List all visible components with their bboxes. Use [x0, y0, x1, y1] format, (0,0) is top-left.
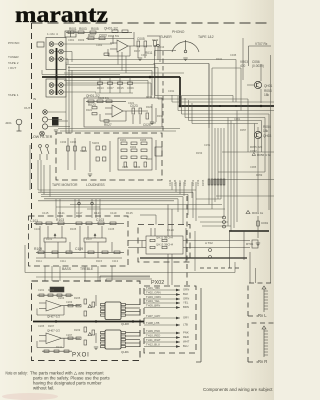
- svg-text:Rv R: Rv R: [258, 359, 267, 364]
- svg-text:C045: C045: [230, 53, 237, 57]
- svg-text:RT01: RT01: [246, 242, 254, 246]
- svg-text:R103: R103: [56, 218, 64, 222]
- svg-text:C115: C115: [42, 211, 49, 215]
- svg-text:C149: C149: [183, 179, 187, 186]
- svg-text:C201: C201: [38, 288, 45, 292]
- svg-text:QH0b: QH0b: [121, 350, 129, 354]
- svg-text:OUT: OUT: [24, 106, 31, 110]
- svg-text:QH01-1/2: QH01-1/2: [104, 27, 118, 31]
- svg-text:C101: C101: [34, 227, 41, 231]
- svg-text:C011: C011: [141, 53, 148, 57]
- svg-text:TH11_WHT: TH11_WHT: [146, 338, 161, 342]
- svg-text:GRY: GRY: [183, 316, 189, 320]
- svg-text:470: 470: [240, 64, 246, 68]
- svg-text:/ OUT: / OUT: [8, 66, 16, 70]
- svg-text:BRN: BRN: [183, 305, 189, 309]
- svg-text:LOW FILTER: LOW FILTER: [31, 135, 53, 139]
- svg-text:C013: C013: [158, 45, 165, 49]
- svg-text:R153: R153: [196, 151, 203, 155]
- svg-text:TH08_LTB: TH08_LTB: [146, 321, 159, 325]
- svg-text:C033: C033: [60, 140, 67, 144]
- svg-text:R061: R061: [120, 138, 127, 142]
- svg-text:C101: C101: [30, 219, 38, 223]
- svg-text:R209: R209: [74, 328, 81, 332]
- svg-text:C065: C065: [250, 165, 257, 169]
- svg-text:TUNER: TUNER: [160, 35, 172, 39]
- svg-text:QH01: QH01: [264, 84, 273, 88]
- svg-text:C043: C043: [134, 165, 141, 169]
- svg-text:C203: C203: [66, 300, 73, 304]
- svg-text:C105: C105: [108, 227, 115, 231]
- svg-text:C057: C057: [250, 149, 257, 153]
- svg-text:Components and wiring are subj: Components and wiring are subject: [203, 387, 273, 392]
- svg-text:J201: J201: [5, 121, 12, 125]
- svg-text:C151: C151: [204, 143, 211, 147]
- svg-text:marantz: marantz: [15, 2, 108, 27]
- svg-text:R021: R021: [86, 108, 93, 112]
- svg-text:R063: R063: [130, 145, 137, 149]
- svg-text:R017: R017: [134, 49, 141, 53]
- svg-text:PHONO: PHONO: [172, 30, 185, 34]
- svg-text:R091 1k: R091 1k: [252, 211, 264, 215]
- svg-text:C021: C021: [128, 101, 135, 105]
- svg-text:R015: R015: [117, 86, 124, 90]
- svg-text:R109: R109: [34, 247, 42, 251]
- svg-text:R041: R041: [216, 57, 223, 61]
- svg-text:R147: R147: [178, 179, 182, 186]
- svg-text:R059: R059: [256, 173, 263, 177]
- svg-text:TH05_BRN: TH05_BRN: [146, 304, 160, 308]
- svg-text:R057: R057: [240, 128, 247, 132]
- svg-text:R123: R123: [94, 211, 101, 215]
- svg-text:QH08: QH08: [121, 322, 129, 326]
- svg-text:C061: C061: [234, 117, 241, 121]
- svg-text:C003: C003: [99, 34, 107, 38]
- svg-text:R151: R151: [191, 179, 195, 186]
- svg-text:C005: C005: [137, 37, 145, 41]
- svg-text:PHONO: PHONO: [8, 41, 20, 45]
- svg-text:TUNER: TUNER: [8, 55, 19, 59]
- svg-text:(0.0039): (0.0039): [252, 64, 264, 68]
- svg-text:TH12_BLU: TH12_BLU: [146, 343, 160, 347]
- svg-text:Note on safety:: Note on safety:: [6, 371, 28, 376]
- svg-text:TH10_RED: TH10_RED: [146, 334, 160, 338]
- svg-text:IN: IN: [33, 97, 36, 101]
- svg-text:R013: R013: [97, 86, 104, 90]
- svg-text:C031: C031: [168, 89, 175, 93]
- svg-text:R056 4.7k: R056 4.7k: [257, 153, 271, 157]
- svg-text:YEL: YEL: [183, 301, 189, 305]
- svg-text:18k: 18k: [263, 129, 269, 133]
- svg-text:QH11 3BCH4: QH11 3BCH4: [156, 236, 173, 240]
- svg-text:R019: R019: [152, 38, 159, 42]
- svg-text:C153: C153: [196, 179, 200, 186]
- svg-text:TH07_GRY: TH07_GRY: [146, 314, 161, 318]
- svg-text:C113: C113: [112, 259, 119, 263]
- svg-text:R207: R207: [48, 324, 55, 328]
- svg-text:R211: R211: [56, 345, 63, 349]
- svg-text:BLK: BLK: [183, 292, 188, 296]
- svg-text:18k: 18k: [264, 93, 270, 97]
- svg-text:R155: R155: [201, 179, 205, 186]
- svg-text:R105: R105: [70, 227, 77, 231]
- svg-text:R031: R031: [157, 114, 164, 118]
- svg-text:without fail.: without fail.: [33, 386, 55, 391]
- svg-text:R115: R115: [96, 259, 103, 263]
- svg-text:R033: R033: [146, 95, 153, 99]
- svg-text:QH07-1/2: QH07-1/2: [47, 315, 60, 319]
- svg-text:BASS: BASS: [62, 267, 72, 271]
- svg-text:C205: C205: [38, 324, 45, 328]
- svg-text:Rv L: Rv L: [258, 313, 267, 318]
- svg-text:R029: R029: [146, 105, 153, 109]
- svg-text:GRN: GRN: [183, 288, 189, 292]
- svg-text:R007: R007: [88, 34, 96, 38]
- svg-text:R121: R121: [58, 211, 65, 215]
- svg-text:C009: C009: [127, 86, 134, 90]
- svg-text:PNK: PNK: [183, 331, 189, 335]
- svg-text:C111: C111: [60, 259, 66, 263]
- svg-text:TAPE 1: TAPE 1: [8, 93, 19, 97]
- svg-text:R067: R067: [146, 157, 153, 161]
- svg-text:TAPE 1&2: TAPE 1&2: [198, 35, 214, 39]
- svg-text:R005 56k: R005 56k: [108, 34, 120, 38]
- svg-text:TREBLE: TREBLE: [80, 267, 94, 271]
- svg-text:R203: R203: [58, 296, 65, 300]
- svg-text:R009: R009: [78, 38, 85, 42]
- svg-text:C035: C035: [70, 140, 77, 144]
- svg-text:R003: R003: [79, 27, 87, 31]
- svg-text:R125: R125: [126, 211, 133, 215]
- svg-text:TAPE 2: TAPE 2: [8, 61, 19, 65]
- svg-text:QH13 3BCH4: QH13 3BCH4: [156, 243, 174, 247]
- svg-text:TH02_GRN: TH02_GRN: [146, 291, 161, 295]
- svg-text:C001: C001: [68, 38, 75, 42]
- svg-text:QH03: QH03: [263, 134, 272, 138]
- svg-text:TH04_YEL: TH04_YEL: [146, 299, 160, 303]
- svg-text:R001: R001: [69, 27, 77, 31]
- svg-text:SW03: SW03: [92, 141, 100, 145]
- svg-text:R107: R107: [86, 237, 93, 241]
- svg-text:C103: C103: [96, 218, 104, 222]
- svg-text:VT07 Rx: VT07 Rx: [255, 42, 268, 46]
- svg-text:R111: R111: [36, 259, 42, 263]
- svg-text:R201: R201: [48, 288, 55, 292]
- svg-text:R065: R065: [140, 138, 147, 142]
- svg-text:R205: R205: [74, 296, 81, 300]
- svg-text:PXOI: PXOI: [72, 353, 90, 359]
- svg-text:TAPE MONITOR: TAPE MONITOR: [52, 183, 78, 187]
- svg-text:C003: C003: [96, 43, 103, 47]
- svg-text:C119: C119: [110, 211, 117, 215]
- svg-text:QH07-2/2: QH07-2/2: [47, 329, 60, 333]
- svg-text:TH01_YBK: TH01_YBK: [146, 286, 160, 290]
- svg-text:WHT: WHT: [183, 340, 190, 344]
- svg-text:C129: C129: [167, 228, 174, 232]
- svg-text:R005: R005: [91, 27, 99, 31]
- svg-text:A T02: A T02: [205, 241, 213, 245]
- svg-text:C145: C145: [173, 179, 177, 186]
- svg-text:LOUDNESS: LOUDNESS: [86, 183, 105, 187]
- svg-text:BLU: BLU: [183, 344, 188, 348]
- svg-text:R101: R101: [46, 237, 53, 241]
- svg-text:C091: C091: [261, 221, 269, 225]
- svg-text:R023: R023: [88, 103, 96, 107]
- svg-text:C207: C207: [66, 333, 73, 337]
- svg-text:LTB: LTB: [183, 323, 188, 327]
- svg-text:R027: R027: [104, 123, 112, 127]
- svg-text:C117: C117: [76, 211, 83, 215]
- svg-text:C041: C041: [122, 165, 129, 169]
- svg-text:C007: C007: [107, 86, 114, 90]
- svg-text:SW01: SW01: [80, 149, 88, 153]
- svg-text:1 nXn 4: 1 nXn 4: [47, 32, 58, 36]
- svg-text:R025 56k: R025 56k: [98, 96, 110, 100]
- svg-text:C109: C109: [75, 247, 83, 251]
- svg-text:C143: C143: [168, 179, 172, 186]
- svg-text:RED: RED: [183, 335, 189, 339]
- svg-text:TH09_PNK: TH09_PNK: [146, 329, 160, 333]
